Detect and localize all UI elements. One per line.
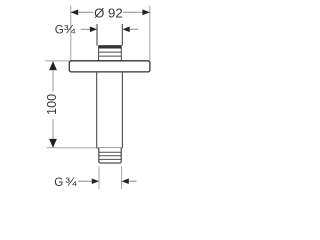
- svg-text:¾: ¾: [65, 175, 77, 189]
- svg-text:100: 100: [45, 94, 59, 115]
- svg-text:Ø 92: Ø 92: [94, 6, 123, 21]
- svg-text:¾: ¾: [64, 23, 76, 37]
- svg-text:G: G: [55, 24, 64, 37]
- svg-text:G: G: [54, 176, 63, 189]
